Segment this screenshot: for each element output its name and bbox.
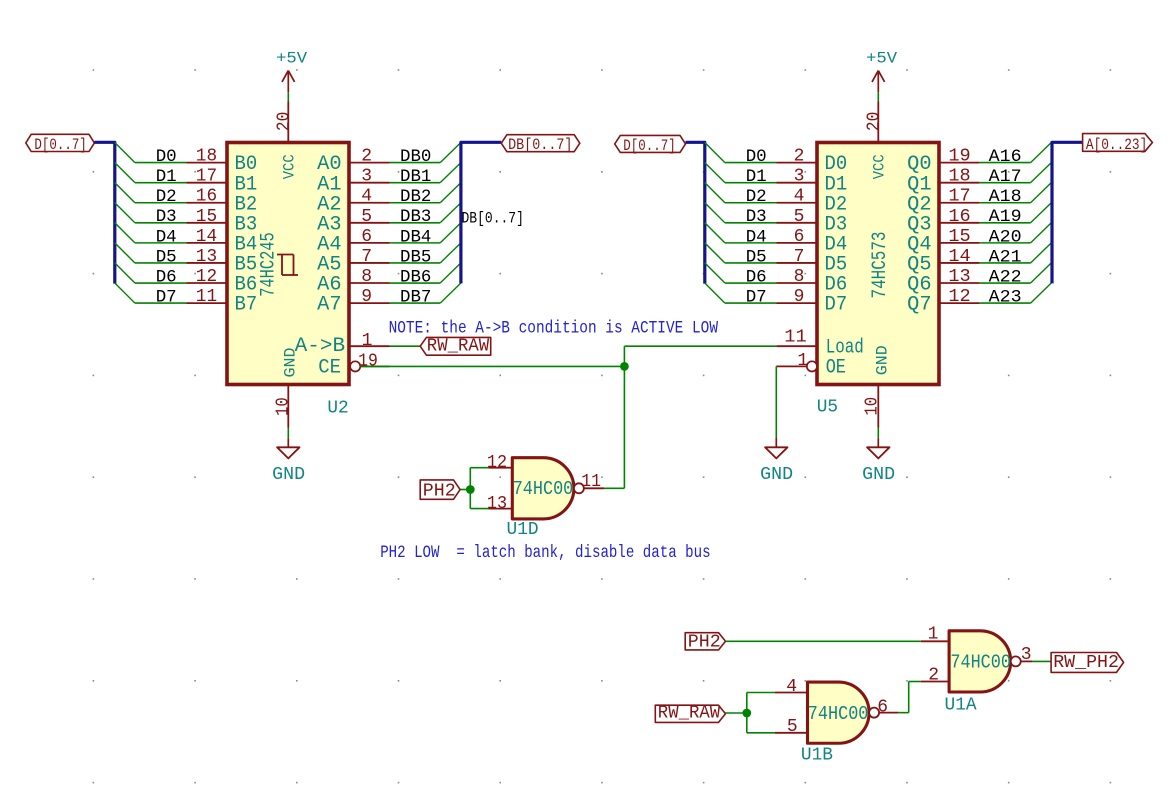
svg-text:VCC: VCC — [870, 154, 888, 179]
U5 pin 20 (VCC) — [864, 102, 884, 143]
svg-text:2: 2 — [794, 147, 805, 167]
wire + bus entry DB4 — [390, 223, 461, 243]
power +5V symbol — [276, 49, 307, 92]
U1D pin 12 — [487, 453, 512, 473]
wire U1D output — [604, 487, 624, 489]
svg-text:9: 9 — [361, 287, 372, 307]
svg-text:19: 19 — [948, 147, 970, 167]
svg-text:6: 6 — [794, 227, 805, 247]
global label PH2 (bottom) — [685, 631, 725, 652]
bus entry + wire D6 (U5) — [705, 263, 777, 283]
wire to U5 Load — [624, 345, 776, 347]
svg-text:74HC00: 74HC00 — [950, 652, 1011, 674]
U5 pin 7 (D5) — [777, 247, 818, 267]
bus entry + wire D4 — [115, 223, 187, 243]
global label RW_RAW (at U2 pin 1) — [420, 335, 491, 356]
wire + bus entry A20 — [980, 223, 1052, 243]
svg-text:B7: B7 — [235, 294, 258, 317]
bus DB[0..7] (right of U2) — [461, 142, 501, 283]
wire + bus entry DB2 — [390, 183, 461, 203]
U2 pin 16 (B2) — [187, 187, 228, 207]
wire + bus entry A19 — [980, 203, 1052, 223]
U1A pin 3 (output) — [1021, 645, 1033, 665]
svg-text:Q7: Q7 — [907, 294, 931, 317]
svg-text:14: 14 — [196, 227, 217, 247]
svg-text:U1B: U1B — [801, 746, 833, 766]
U5 pin 8 (D6) — [777, 267, 818, 287]
U5 pin 15 (Q4) — [939, 227, 980, 247]
svg-text:DB1: DB1 — [400, 167, 431, 187]
bus entry + wire D3 — [115, 203, 187, 223]
svg-text:NOTE: the A->B condition is AC: NOTE: the A->B condition is ACTIVE LOW — [389, 319, 719, 339]
svg-text:15: 15 — [948, 227, 970, 247]
svg-text:1: 1 — [928, 625, 939, 645]
svg-text:D6: D6 — [156, 267, 177, 287]
bus entry + wire D5 (U5) — [705, 243, 777, 263]
U2 buffer glyph — [277, 255, 298, 276]
svg-text:10: 10 — [863, 397, 883, 416]
svg-text:11: 11 — [196, 287, 217, 307]
svg-text:D7: D7 — [746, 287, 767, 307]
U2 pin 8 (A6) — [349, 267, 390, 287]
svg-text:RW_PH2: RW_PH2 — [1053, 652, 1119, 673]
svg-text:U1A: U1A — [945, 695, 977, 715]
svg-text:DB6: DB6 — [400, 267, 431, 287]
NAND gate U1B (74HC00) — [808, 682, 880, 743]
svg-text:16: 16 — [196, 187, 217, 207]
bus entry + wire D2 (U5) — [705, 183, 777, 203]
svg-text:74HC00: 74HC00 — [513, 478, 574, 500]
U2 pin 11 (B7) — [187, 287, 228, 307]
svg-text:GND: GND — [760, 465, 793, 485]
svg-text:12: 12 — [487, 453, 507, 473]
svg-text:D2: D2 — [156, 187, 177, 207]
svg-text:20: 20 — [864, 112, 884, 131]
svg-text:3: 3 — [794, 167, 805, 187]
svg-text:74HC245: 74HC245 — [258, 232, 281, 297]
U5 pin 13 (Q6) — [939, 267, 980, 287]
svg-text:DB2: DB2 — [400, 187, 431, 207]
svg-text:13: 13 — [948, 267, 970, 287]
U5 pin 14 (Q5) — [939, 247, 980, 267]
U2 pin 15 (B3) — [187, 207, 228, 227]
wire PH2 to U1A pin 1 — [726, 640, 921, 642]
svg-text:4: 4 — [361, 187, 372, 207]
bus entry + wire D0 (U5) — [705, 143, 777, 163]
U2 pin 10 (GND) — [273, 385, 293, 428]
svg-text:15: 15 — [196, 207, 217, 227]
U2 pin 18 (B0) — [187, 147, 228, 167]
wire + bus entry DB0 — [390, 143, 461, 163]
bus entry + wire D1 — [115, 163, 187, 183]
svg-text:17: 17 — [948, 187, 970, 207]
U2 pin 7 (A5) — [349, 247, 390, 267]
svg-text:D3: D3 — [746, 207, 767, 227]
svg-text:DB7: DB7 — [400, 287, 431, 307]
global label RW_PH2 — [1051, 652, 1124, 673]
wire U1A output — [1032, 660, 1051, 662]
svg-text:D2: D2 — [746, 187, 767, 207]
U5 pin 4 (D2) — [777, 187, 818, 207]
U1A pin 1 — [921, 625, 949, 645]
bus entry + wire D4 (U5) — [705, 223, 777, 243]
global label RW_RAW (bottom) — [655, 703, 725, 724]
svg-text:D4: D4 — [156, 227, 177, 247]
bus entry + wire D2 — [115, 183, 187, 203]
wire + bus entry DB5 — [390, 243, 461, 263]
bus label DB[0..7] — [501, 135, 580, 155]
U5 pin 3 (D1) — [777, 167, 818, 187]
bus entry + wire D0 — [115, 143, 187, 163]
U1A pin 2 — [921, 666, 949, 686]
U1D pin 11 (output) — [581, 472, 604, 492]
U2 pin 12 (B6) — [187, 267, 228, 287]
svg-text:5: 5 — [794, 207, 805, 227]
wire OE to GND — [775, 366, 777, 437]
svg-text:1: 1 — [362, 331, 373, 351]
svg-text:+5V: +5V — [866, 49, 897, 67]
svg-text:74HC573: 74HC573 — [869, 232, 892, 299]
svg-text:3: 3 — [361, 167, 372, 187]
wire — [877, 428, 879, 439]
svg-text:+5V: +5V — [276, 49, 307, 67]
U1D pin 13 — [487, 494, 512, 514]
svg-text:D7: D7 — [825, 294, 848, 317]
wire + bus entry A17 — [980, 163, 1052, 183]
U1B pin 6 (output) — [877, 698, 899, 718]
svg-text:A21: A21 — [989, 247, 1022, 267]
svg-text:13: 13 — [196, 247, 217, 267]
wire — [287, 92, 289, 101]
svg-text:DB0: DB0 — [400, 147, 431, 167]
svg-text:11: 11 — [784, 328, 806, 348]
U5 pin 12 (Q7) — [939, 287, 980, 307]
bus entry + wire D1 (U5) — [705, 163, 777, 183]
U2 pin 4 (A2) — [349, 187, 390, 207]
svg-text:20: 20 — [274, 112, 294, 131]
U2 pin 9 (A7) — [349, 287, 390, 307]
svg-text:A16: A16 — [989, 147, 1022, 167]
svg-text:74HC00: 74HC00 — [808, 703, 869, 725]
svg-text:4: 4 — [786, 677, 797, 697]
svg-text:3: 3 — [1021, 645, 1032, 665]
wire + bus entry DB1 — [390, 163, 461, 183]
junction — [466, 485, 475, 494]
bus label A[0..23] — [1083, 134, 1153, 154]
svg-text:A[0..23]: A[0..23] — [1086, 136, 1147, 154]
U2 pin 20 (VCC) — [274, 102, 294, 143]
svg-text:DB[0..7]: DB[0..7] — [508, 136, 572, 154]
wire U1D input loop — [460, 468, 488, 509]
svg-text:DB4: DB4 — [400, 227, 431, 247]
svg-text:12: 12 — [948, 287, 970, 307]
svg-text:D0: D0 — [746, 147, 767, 167]
svg-text:11: 11 — [581, 472, 601, 492]
U2 pin 14 (B4) — [187, 227, 228, 247]
svg-text:17: 17 — [196, 167, 217, 187]
svg-text:13: 13 — [487, 494, 507, 514]
svg-text:A22: A22 — [989, 267, 1022, 287]
U5 pin 17 (Q2) — [939, 187, 980, 207]
svg-text:DB3: DB3 — [400, 207, 431, 227]
NAND gate U1A (74HC00) — [949, 631, 1021, 692]
bus entry + wire D3 (U5) — [705, 203, 777, 223]
U5 pin 1 (OE) — [776, 351, 817, 372]
svg-text:A7: A7 — [317, 294, 341, 317]
U5 pin 2 (D0) — [777, 147, 818, 167]
svg-text:OE: OE — [826, 357, 846, 380]
svg-text:D3: D3 — [156, 207, 177, 227]
svg-text:D[0..7]: D[0..7] — [34, 136, 86, 154]
svg-text:8: 8 — [361, 267, 372, 287]
ground symbol — [765, 437, 787, 458]
svg-text:PH2: PH2 — [688, 631, 721, 652]
wire + bus entry A22 — [980, 263, 1052, 283]
U2 pin 19 (CE) — [350, 352, 389, 372]
svg-text:D6: D6 — [746, 267, 767, 287]
bus entry + wire D6 — [115, 263, 187, 283]
svg-text:GND: GND — [874, 345, 892, 375]
wire + bus entry A16 — [980, 143, 1052, 163]
IC U5 74HC573 body — [817, 143, 939, 385]
svg-text:U2: U2 — [327, 399, 348, 419]
svg-text:D7: D7 — [156, 287, 177, 307]
svg-text:DB[0..7]: DB[0..7] — [462, 209, 524, 227]
svg-text:1: 1 — [797, 351, 808, 371]
bus entry + wire D5 — [115, 243, 187, 263]
U2 pin 5 (A3) — [349, 207, 390, 227]
U5 pin 16 (Q3) — [939, 207, 980, 227]
wire + bus entry A18 — [980, 183, 1052, 203]
wire U1B input loop — [747, 693, 775, 733]
U2 pin 13 (B5) — [187, 247, 228, 267]
bus A[0..23] (right of U5) — [1052, 142, 1083, 283]
svg-text:2: 2 — [928, 666, 939, 686]
svg-text:10: 10 — [273, 397, 293, 416]
power +5V symbol — [866, 49, 897, 92]
wire RW_RAW to junction — [726, 712, 747, 714]
NAND gate U1D (74HC00) — [512, 458, 584, 519]
wire junction vertical — [623, 346, 625, 488]
svg-text:16: 16 — [948, 207, 970, 227]
svg-text:5: 5 — [787, 717, 798, 737]
wire + bus entry DB6 — [390, 263, 461, 283]
svg-text:7: 7 — [794, 247, 805, 267]
svg-text:12: 12 — [196, 267, 217, 287]
svg-text:D5: D5 — [156, 247, 177, 267]
svg-text:GND: GND — [272, 465, 305, 485]
U2 pin 1 (A->B) — [349, 331, 390, 351]
U5 pin 11 (Load) — [776, 328, 817, 348]
svg-text:D1: D1 — [156, 167, 177, 187]
svg-text:PH2: PH2 — [423, 480, 456, 501]
U5 pin 6 (D4) — [777, 227, 818, 247]
bus entry + wire D7 (U5) — [705, 283, 777, 303]
junction — [620, 362, 629, 371]
svg-text:6: 6 — [361, 227, 372, 247]
ground symbol — [867, 438, 889, 458]
U2 pin 3 (A1) — [349, 167, 390, 187]
svg-text:D1: D1 — [746, 167, 767, 187]
svg-text:14: 14 — [948, 247, 970, 267]
svg-text:8: 8 — [794, 267, 805, 287]
IC U2 74HC245 body — [227, 143, 349, 385]
svg-text:18: 18 — [948, 167, 970, 187]
svg-text:A19: A19 — [989, 207, 1022, 227]
svg-text:VCC: VCC — [280, 154, 298, 179]
U1B pin 5 — [775, 717, 808, 737]
svg-text:6: 6 — [877, 698, 888, 718]
svg-text:U1D: U1D — [507, 520, 539, 540]
bus label D[0..7] (left) — [26, 134, 95, 154]
svg-text:RW_RAW: RW_RAW — [658, 703, 721, 724]
svg-text:2: 2 — [361, 147, 372, 167]
svg-text:GND: GND — [862, 465, 895, 485]
svg-text:A17: A17 — [989, 167, 1022, 187]
U5 pin 9 (D7) — [777, 287, 818, 307]
U5 pin 5 (D3) — [777, 207, 818, 227]
svg-text:D5: D5 — [746, 247, 767, 267]
wire — [390, 345, 421, 347]
U2 pin 6 (A4) — [349, 227, 390, 247]
wire + bus entry A23 — [980, 283, 1052, 303]
wire — [877, 92, 879, 101]
wire U1B output to U1A pin 2 — [899, 682, 921, 713]
junction — [742, 709, 751, 718]
wire + bus entry DB7 — [390, 283, 461, 303]
svg-text:CE: CE — [318, 357, 341, 380]
U5 pin 19 (Q0) — [939, 147, 980, 167]
U5 pin 18 (Q1) — [939, 167, 980, 187]
ground symbol — [277, 438, 299, 458]
svg-text:DB5: DB5 — [400, 247, 431, 267]
svg-text:5: 5 — [361, 207, 372, 227]
svg-text:U5: U5 — [817, 398, 838, 418]
global label PH2 (at U1D) — [420, 480, 460, 502]
svg-text:A23: A23 — [989, 287, 1022, 307]
wire — [287, 428, 289, 439]
bus entry + wire D7 — [115, 283, 187, 303]
bus D[0..7] (left of U5) — [686, 142, 705, 283]
svg-text:D[0..7]: D[0..7] — [623, 137, 675, 155]
wire CE to junction — [360, 365, 624, 367]
svg-text:19: 19 — [358, 352, 378, 372]
svg-text:A18: A18 — [989, 187, 1022, 207]
U2 pin 17 (B1) — [187, 167, 228, 187]
U2 pin 2 (A0) — [349, 147, 390, 167]
wire + bus entry A21 — [980, 243, 1052, 263]
bus D[0..7] (left of U2) — [94, 142, 114, 283]
U1B pin 4 — [775, 677, 808, 697]
svg-text:A20: A20 — [989, 227, 1022, 247]
wire + bus entry DB3 — [390, 203, 461, 223]
svg-text:D0: D0 — [156, 147, 177, 167]
svg-text:9: 9 — [794, 287, 805, 307]
svg-text:PH2 LOW = latch bank, disable: PH2 LOW = latch bank, disable data bus — [380, 543, 710, 563]
svg-text:7: 7 — [361, 247, 372, 267]
svg-text:4: 4 — [794, 187, 805, 207]
svg-text:D4: D4 — [746, 227, 767, 247]
U5 pin 10 (GND) — [863, 385, 883, 428]
svg-text:18: 18 — [196, 147, 217, 167]
bus label D[0..7] (at U5) — [615, 135, 686, 155]
svg-text:A->B: A->B — [295, 335, 345, 358]
